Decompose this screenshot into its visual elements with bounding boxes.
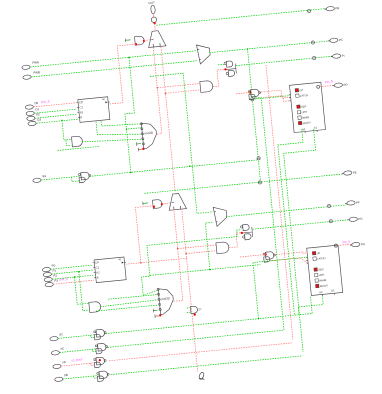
net label pwr_b lower bbox=[59, 277, 68, 282]
wire U2 pin to port PD bbox=[320, 85, 335, 86]
stub input T2 bbox=[143, 201, 148, 205]
wire Gr2 in red bbox=[240, 255, 266, 258]
output port PD bbox=[332, 83, 347, 88]
latch IC U2 bbox=[288, 82, 326, 134]
input port D2 bbox=[27, 112, 41, 121]
wire Gr1 out2 to U2 pin3 bbox=[256, 96, 291, 102]
svg-text:SER: SER bbox=[318, 267, 324, 272]
wire U2 A1 down-left rail bbox=[284, 129, 316, 352]
svg-text:pw_B: pw_B bbox=[325, 79, 333, 84]
output port PC bbox=[328, 38, 343, 43]
wire U5 pin to port PH bbox=[337, 244, 351, 245]
svg-text:PD: PD bbox=[343, 83, 347, 87]
wire T2b tap to G4a in2 bbox=[186, 251, 216, 254]
node BH1 branch bbox=[209, 269, 211, 271]
node T2a tap OR2a bbox=[177, 248, 179, 250]
wire G3 red to RV2 bbox=[109, 343, 292, 361]
red dot G1a output bbox=[143, 40, 145, 42]
wire Gr2 out2 to U5 pin3 bbox=[270, 258, 307, 263]
node feeder-Gm crossing bbox=[189, 165, 191, 167]
wire T2a tap to G4a in1 bbox=[178, 245, 216, 249]
wire rail T2a to mxD2 bbox=[173, 209, 183, 301]
wire Gm out bus bbox=[89, 160, 258, 177]
input port B1 bbox=[33, 174, 47, 183]
pin bubble U2 TR bbox=[317, 85, 320, 88]
input port nA bbox=[53, 360, 66, 369]
latch IC U5 bbox=[305, 245, 343, 297]
node Gm line tap bbox=[130, 172, 132, 174]
svg-text:UP: UP bbox=[299, 88, 303, 92]
gate pair G1 bbox=[94, 329, 107, 340]
counter IC U3 bbox=[76, 97, 111, 123]
counter IC U6 bbox=[92, 257, 127, 283]
svg-text:UPH: UPH bbox=[301, 110, 307, 115]
wire rail RV2 bbox=[266, 65, 293, 340]
node M1 out branch bbox=[247, 48, 249, 50]
input port PWB bbox=[23, 70, 41, 80]
red dot G3 bbox=[99, 359, 101, 361]
wire BH1 up to M2 pin2 bbox=[205, 222, 213, 269]
label CP bbox=[197, 307, 201, 311]
output port P3 bbox=[331, 54, 345, 59]
wire under Gx bbox=[58, 146, 101, 150]
svg-text:UPH: UPH bbox=[319, 273, 325, 278]
wire Gx out to mxD1 pin4 bbox=[82, 139, 141, 142]
AND gate G4a bbox=[216, 242, 229, 254]
clock tag symbol bbox=[198, 371, 206, 380]
red dot G1a input bbox=[135, 43, 137, 45]
wire bottom bus BH1 bbox=[150, 265, 260, 276]
red dot Gr2 bbox=[265, 253, 267, 255]
input port SC bbox=[50, 332, 64, 341]
node J_A1 bbox=[251, 98, 254, 101]
wire D3 to U3 pin4 bbox=[36, 119, 77, 123]
node T2b tap OR2b bbox=[185, 253, 187, 255]
svg-text:PWA: PWA bbox=[32, 60, 39, 65]
stub mxD1 pin5 bbox=[136, 142, 141, 146]
wire Gm loop in2 bbox=[72, 177, 80, 182]
red dot mxD2 clock pin bbox=[159, 314, 161, 316]
wire D0 to U3 pin1 bbox=[34, 103, 77, 107]
red dot G2a input bbox=[153, 206, 155, 208]
wire P1 to U6 pin2 bbox=[51, 270, 93, 274]
transmission pair K1 bbox=[224, 61, 237, 77]
input port PWA bbox=[22, 60, 39, 70]
wire G3 out to cluster K1 bbox=[213, 69, 225, 87]
AND gate G2a bbox=[153, 199, 163, 208]
wire K1 to port P3 bbox=[236, 56, 332, 65]
wire nA to G3 bbox=[61, 363, 95, 366]
wire P2 branch to Gb in1 bbox=[75, 277, 89, 304]
wire Gx loop in2 bbox=[66, 140, 71, 146]
AND gate G1a bbox=[135, 36, 145, 45]
stub mxD1 clock bbox=[138, 147, 142, 151]
net label or_boot bbox=[71, 357, 82, 362]
input port P3 bbox=[45, 278, 59, 287]
node G1 line branch bbox=[258, 318, 260, 320]
input port SB bbox=[55, 373, 69, 382]
transmission pair K2 bbox=[240, 224, 253, 240]
svg-text:PH: PH bbox=[361, 242, 365, 246]
node R1a-OR1 tap bbox=[157, 87, 159, 89]
svg-text:SER: SER bbox=[301, 104, 307, 109]
node P2 branch bbox=[74, 276, 76, 278]
stub input T1 bbox=[125, 38, 130, 42]
wire K2 down to mxD2 pin1 bbox=[142, 230, 241, 296]
svg-text:SB: SB bbox=[64, 373, 68, 377]
stub Grb in1 bbox=[187, 307, 190, 309]
stub Grb in2 bbox=[187, 311, 190, 313]
svg-text:INHIB: INHIB bbox=[302, 115, 310, 120]
svg-text:UP: UP bbox=[316, 251, 320, 255]
wire U3 to mxD1 pin3 bbox=[96, 122, 141, 135]
svg-text:pwr_b: pwr_b bbox=[59, 277, 68, 282]
wire net to port PE bbox=[145, 174, 344, 194]
wire R1a tap to AND3 in1 bbox=[157, 84, 200, 88]
AND gate G3 bbox=[200, 80, 213, 92]
wire Gr1 red stub bbox=[236, 93, 250, 94]
node J_PB bbox=[307, 9, 310, 12]
input port nE bbox=[51, 346, 64, 355]
node R1b-OR1 tap bbox=[165, 93, 167, 95]
svg-text:CP: CP bbox=[197, 307, 201, 311]
junction dot on OUT net bbox=[153, 22, 155, 24]
wire R1b tap to AND3 in2 bbox=[165, 90, 199, 93]
wire U5 A1 hook bbox=[298, 295, 323, 314]
svg-text:LATCH: LATCH bbox=[317, 256, 326, 261]
wire SB loop bbox=[94, 376, 99, 378]
svg-text:CP: CP bbox=[95, 260, 99, 264]
red dot mxD1 clock pin bbox=[142, 148, 144, 150]
svg-text:PC: PC bbox=[339, 38, 343, 42]
wire G2a to U4 enable bbox=[162, 203, 170, 204]
wire OUT net to port PB bbox=[156, 9, 326, 26]
stub mxD2 pin5 bbox=[153, 308, 157, 312]
multiplexer M2 bbox=[213, 206, 227, 226]
AND gate Gx bbox=[72, 136, 83, 147]
wire J1 down to mxD1 pin2 bbox=[125, 57, 141, 129]
input port P2 bbox=[44, 273, 58, 282]
net label pwr_b top bbox=[41, 99, 50, 104]
wire G4a out to cluster K2 bbox=[229, 233, 242, 248]
wire nA loop bbox=[91, 363, 96, 365]
wire M1 out to port PC bbox=[209, 41, 329, 53]
tri-state buffer U1 bbox=[147, 30, 166, 47]
gate pair G2 bbox=[95, 343, 108, 354]
svg-text:MUX/V: MUX/V bbox=[302, 120, 311, 125]
gate pair Gr1 bbox=[248, 89, 261, 100]
wire B1 to Gm bbox=[41, 176, 80, 180]
wire P0 to U6 pin1 bbox=[51, 265, 93, 269]
wire Gb out to mxD2 pin3 bbox=[100, 300, 158, 307]
node OUT label bbox=[148, 1, 155, 6]
input port D0 bbox=[25, 101, 39, 110]
wire U3 out to G1a net bbox=[110, 44, 137, 104]
wire G2 to Gr1 green bbox=[108, 98, 285, 348]
input port D3 bbox=[28, 117, 42, 126]
LED indicator D1 bbox=[151, 15, 157, 23]
wire Gr2 out1 to U5 pin1 bbox=[274, 252, 308, 255]
wire nE to G2 bbox=[60, 349, 97, 353]
wire G1a to U1 enable bbox=[144, 40, 150, 41]
multiplexer-decoder X1 bbox=[140, 121, 158, 149]
output port OUT bbox=[150, 5, 155, 14]
wire branch up to U5 pin2 bbox=[253, 257, 308, 319]
output port PE bbox=[342, 170, 357, 175]
red dot K1 bbox=[224, 68, 226, 70]
gate pair Gm bbox=[78, 172, 91, 183]
wire U6 tap up to G2a bbox=[135, 206, 154, 263]
svg-text:INHIB: INHIB bbox=[319, 278, 327, 283]
wire rail R1b U1.in2 to U4 apex bbox=[161, 47, 175, 192]
input port P0 bbox=[42, 263, 56, 272]
AND gate Grb bbox=[190, 306, 197, 314]
wire SB to G4 bbox=[63, 376, 99, 380]
red dot Grb bbox=[194, 313, 196, 315]
svg-text:LATCH: LATCH bbox=[300, 93, 309, 98]
svg-text:PF: PF bbox=[356, 200, 360, 204]
node J_P3 bbox=[312, 56, 315, 59]
node J_A2 bbox=[257, 157, 260, 160]
wire U6 out right bbox=[126, 258, 187, 264]
wire G1 to U5 A0 bbox=[106, 297, 312, 334]
node J_PC bbox=[311, 41, 314, 44]
wire rail T2b down bbox=[182, 209, 198, 372]
svg-text:PWB: PWB bbox=[33, 70, 40, 75]
wire D2 to U3 pin3 bbox=[35, 114, 77, 118]
input port D1 bbox=[26, 107, 40, 116]
wire K2 to port PG bbox=[253, 220, 350, 230]
wire Gr1 out1 to U2 pin2 bbox=[259, 90, 290, 98]
node J_PG bbox=[329, 219, 332, 222]
AND gate Gb bbox=[89, 301, 101, 312]
wire J_A1 to U2 pin1 bbox=[252, 96, 290, 100]
wire M2 out to port PF bbox=[226, 205, 347, 217]
wire to mxD2 pin4 bbox=[96, 305, 158, 311]
red dot K2 bbox=[241, 232, 243, 234]
node P1 branch bbox=[78, 271, 80, 273]
wire PWB to M1 pin2 bbox=[31, 61, 197, 77]
svg-text:pw_b: pw_b bbox=[342, 239, 350, 244]
wire bus VGA down bbox=[248, 49, 261, 182]
tri-state buffer U4 bbox=[168, 193, 187, 210]
wire a4 branch to Gx in1 bbox=[62, 120, 71, 140]
multiplexer-decoder X2 bbox=[157, 287, 175, 315]
svg-text:nE: nE bbox=[60, 346, 64, 350]
svg-text:MUX/V: MUX/V bbox=[320, 283, 329, 288]
wire rail R1a from U1.in1 bbox=[153, 47, 162, 134]
wire SC to G1 bbox=[58, 335, 95, 339]
multiplexer M1 bbox=[197, 44, 211, 64]
wire P3 to U6 pin4 bbox=[53, 280, 94, 284]
red dot G2a output bbox=[161, 203, 163, 205]
wire G4 long line bbox=[111, 356, 303, 375]
net label pw_B bbox=[325, 79, 333, 84]
node a4 branch bbox=[61, 120, 63, 122]
wire U2 A0 down-left rail bbox=[278, 129, 303, 315]
svg-text:PB: PB bbox=[335, 6, 339, 10]
gate pair G3 bbox=[94, 357, 107, 368]
node J_A3 bbox=[258, 181, 261, 184]
gate pair Gr2 bbox=[263, 251, 276, 262]
red dot Gr1 bbox=[249, 91, 251, 93]
gate pair G4 bbox=[97, 371, 110, 382]
output port PF bbox=[345, 200, 360, 205]
stub mxD2 clock bbox=[155, 314, 159, 318]
wire J2 down to Gm line bbox=[127, 129, 131, 173]
stub K1 green in bbox=[218, 63, 224, 66]
wire U3 to mxD1 pin1 bbox=[101, 121, 141, 126]
output port PG bbox=[347, 217, 363, 222]
node J2 branch bbox=[126, 128, 128, 130]
input port P1 bbox=[43, 268, 57, 277]
wire PWA to M1 pin1 bbox=[30, 51, 197, 67]
output port PH bbox=[350, 242, 365, 247]
wire nE loop bbox=[92, 349, 97, 351]
svg-text:nA: nA bbox=[62, 360, 66, 364]
wire P1 branch to Gb in2 bbox=[79, 272, 89, 311]
net label pw_b lower bbox=[342, 239, 350, 244]
wire SC loop bbox=[91, 335, 96, 337]
output port PB bbox=[324, 6, 339, 11]
node U6 out tap bbox=[140, 262, 142, 264]
pin bubble U5 TR bbox=[334, 244, 337, 247]
node J_PF bbox=[327, 204, 330, 207]
wire OUT port to LED bbox=[152, 14, 155, 17]
svg-text:CD: CD bbox=[79, 100, 83, 104]
wire P2 to U6 pin3 bbox=[52, 275, 93, 279]
svg-text:PE: PE bbox=[353, 170, 357, 174]
wire to mxD2 pin2 bbox=[108, 295, 158, 300]
node PWA branch J1 bbox=[128, 57, 130, 59]
wire LED to buffer U1 apex bbox=[154, 24, 156, 31]
svg-text:OUT: OUT bbox=[148, 1, 155, 6]
wire feeder to M2 pin1 bbox=[150, 73, 213, 213]
wire D1 to U3 pin2 bbox=[34, 109, 76, 113]
svg-text:SC: SC bbox=[59, 332, 63, 336]
